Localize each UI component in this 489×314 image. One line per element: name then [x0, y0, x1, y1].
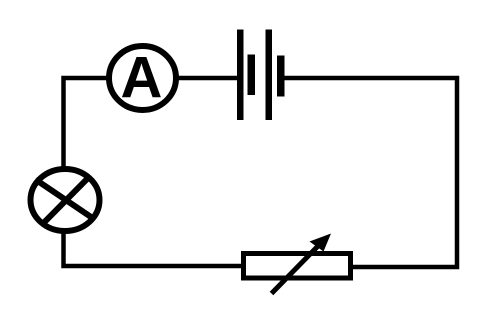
battery B1 cell1 long plate: [237, 30, 244, 121]
lamp L1 circle: [31, 169, 100, 231]
lamp L1 cross line 1: [36, 180, 93, 219]
battery B1 cell2 short plate: [277, 56, 285, 97]
battery B1 cell1 short plate: [248, 55, 256, 96]
wire: lamp bottom down, bottom-left corner, right to resistor left end: [64, 230, 243, 266]
ammeter U1 circle: [109, 46, 176, 110]
wire: battery right, down right side, bottom to resistor right end: [283, 78, 457, 267]
variable resistor R1 arrow shaft: [272, 246, 319, 294]
wire: top-left corner, from lamp top up to corner then right to ammeter: [64, 78, 110, 170]
variable resistor R1 body: [244, 254, 351, 279]
wire: ammeter to battery: [175, 76, 239, 81]
svg-text:A: A: [121, 46, 163, 111]
battery B1 cell2 long plate: [266, 30, 273, 121]
lamp L1 cross line 2: [45, 176, 91, 223]
variable resistor R1 arrow head: [310, 234, 332, 252]
